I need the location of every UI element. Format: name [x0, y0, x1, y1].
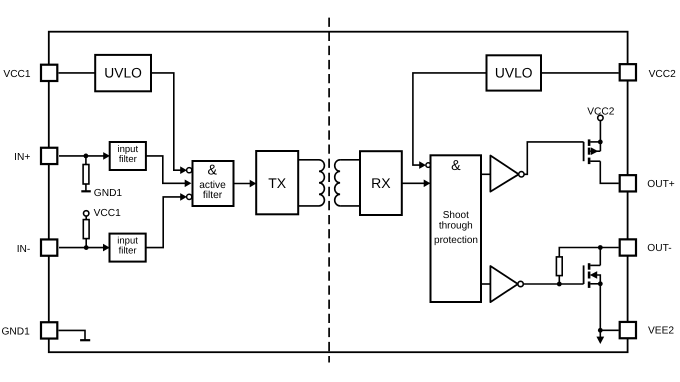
- svg-text:GND1: GND1: [94, 188, 123, 199]
- svg-text:filter: filter: [119, 154, 137, 165]
- svg-text:filter: filter: [119, 246, 137, 257]
- wire shoot-through to bottom inverter: [481, 283, 490, 285]
- wire Q2 source to VEE2 pin: [599, 284, 601, 331]
- svg-text:protection: protection: [434, 235, 478, 246]
- isolation barrier (dashed): [328, 18, 330, 363]
- pin IN-: [41, 239, 57, 255]
- pin GND1: [41, 322, 57, 338]
- resistor R2 (IN- pullup): [85, 216, 87, 220]
- wire active filter to TX: [234, 183, 251, 185]
- wire top inverter to Q1 gate: [524, 142, 584, 174]
- wire UVLO2 to VCC2 pin: [541, 72, 619, 74]
- wire UVLO2 to shoot-through in1: [413, 73, 487, 165]
- svg-text:RX: RX: [371, 175, 391, 191]
- shoot-through protection block U4: [431, 155, 482, 302]
- svg-text:TX: TX: [268, 175, 287, 191]
- transformer secondary winding: [335, 160, 360, 206]
- wire OUT- pin to Q2 drain: [600, 247, 618, 249]
- svg-text:VCC1: VCC1: [3, 69, 31, 80]
- junction on IN+ net: [84, 154, 89, 159]
- pin VEE2: [620, 322, 636, 338]
- svg-text:VEE2: VEE2: [648, 326, 674, 337]
- RX block: [360, 151, 402, 215]
- wire filter1 to active filter input 2: [146, 156, 185, 183]
- pin VCC2: [620, 64, 636, 80]
- top driver inverter: [490, 156, 518, 192]
- TX block: [256, 151, 298, 214]
- UVLO U1: [95, 55, 151, 91]
- resistor R1 (IN+ pulldown): [85, 156, 87, 165]
- wire IN+ pin to input filter 1: [59, 155, 104, 157]
- junction gate node: [557, 282, 562, 287]
- svg-text:&: &: [208, 162, 218, 178]
- wire filter2 to active filter input 3: [146, 197, 181, 248]
- inverting bubble (active filter in3): [187, 194, 192, 199]
- svg-text:filter: filter: [203, 190, 223, 201]
- svg-text:IN+: IN+: [14, 152, 30, 163]
- wire IN- pin to input filter 2: [59, 247, 104, 249]
- ground GND1 (pin): [80, 339, 90, 341]
- package boundary: [49, 32, 628, 353]
- ground GND1 (near R1): [81, 190, 91, 192]
- svg-text:OUT+: OUT+: [647, 179, 675, 190]
- svg-text:IN-: IN-: [17, 244, 31, 255]
- transformer primary winding: [298, 160, 324, 206]
- input filter F2: [110, 234, 146, 262]
- svg-text:VCC2: VCC2: [649, 69, 677, 80]
- inverting bubble (active filter in1): [187, 168, 192, 173]
- UVLO U3: [487, 55, 542, 90]
- transistor Q2 (low side NMOS): [584, 263, 601, 288]
- wire GND1 pin to ground: [59, 330, 85, 339]
- inverting bubble (shoot-through in1): [426, 163, 431, 168]
- svg-text:GND1: GND1: [1, 326, 30, 337]
- active filter block U2: [193, 161, 234, 206]
- svg-text:OUT-: OUT-: [647, 243, 671, 254]
- svg-text:through: through: [439, 220, 473, 231]
- svg-text:UVLO: UVLO: [495, 65, 533, 80]
- wire UVLO1 to active filter input 1: [151, 73, 181, 170]
- pin OUT+: [620, 175, 636, 191]
- input filter F1: [110, 142, 146, 170]
- junction Q1 drain / VCC2: [598, 140, 603, 145]
- VCC1 terminal (near R2): [84, 211, 89, 216]
- wire Q1 source to OUT+ pin: [600, 161, 618, 183]
- svg-text:VCC1: VCC1: [94, 208, 122, 219]
- bottom driver inverter: [490, 266, 518, 302]
- svg-text:UVLO: UVLO: [104, 65, 142, 80]
- wire bottom inverter to Q2 gate: [523, 283, 583, 285]
- transistor Q1 (high side NMOS): [584, 139, 601, 164]
- pin IN+: [41, 148, 57, 164]
- gate resistor R3: [559, 248, 600, 257]
- bottom inverter bubble: [518, 281, 523, 286]
- pin OUT-: [620, 239, 636, 255]
- junction Q2 source: [598, 281, 603, 286]
- wire shoot-through to top inverter: [481, 173, 490, 175]
- wire RX to shoot-through in2: [402, 182, 425, 184]
- svg-text:&: &: [451, 158, 461, 174]
- wire VCC1 pin to UVLO1: [59, 72, 96, 74]
- down arrow at VEE2 node: [599, 330, 601, 337]
- junction on IN- net: [84, 245, 89, 250]
- top inverter bubble: [519, 172, 524, 177]
- pin VCC1: [41, 65, 57, 81]
